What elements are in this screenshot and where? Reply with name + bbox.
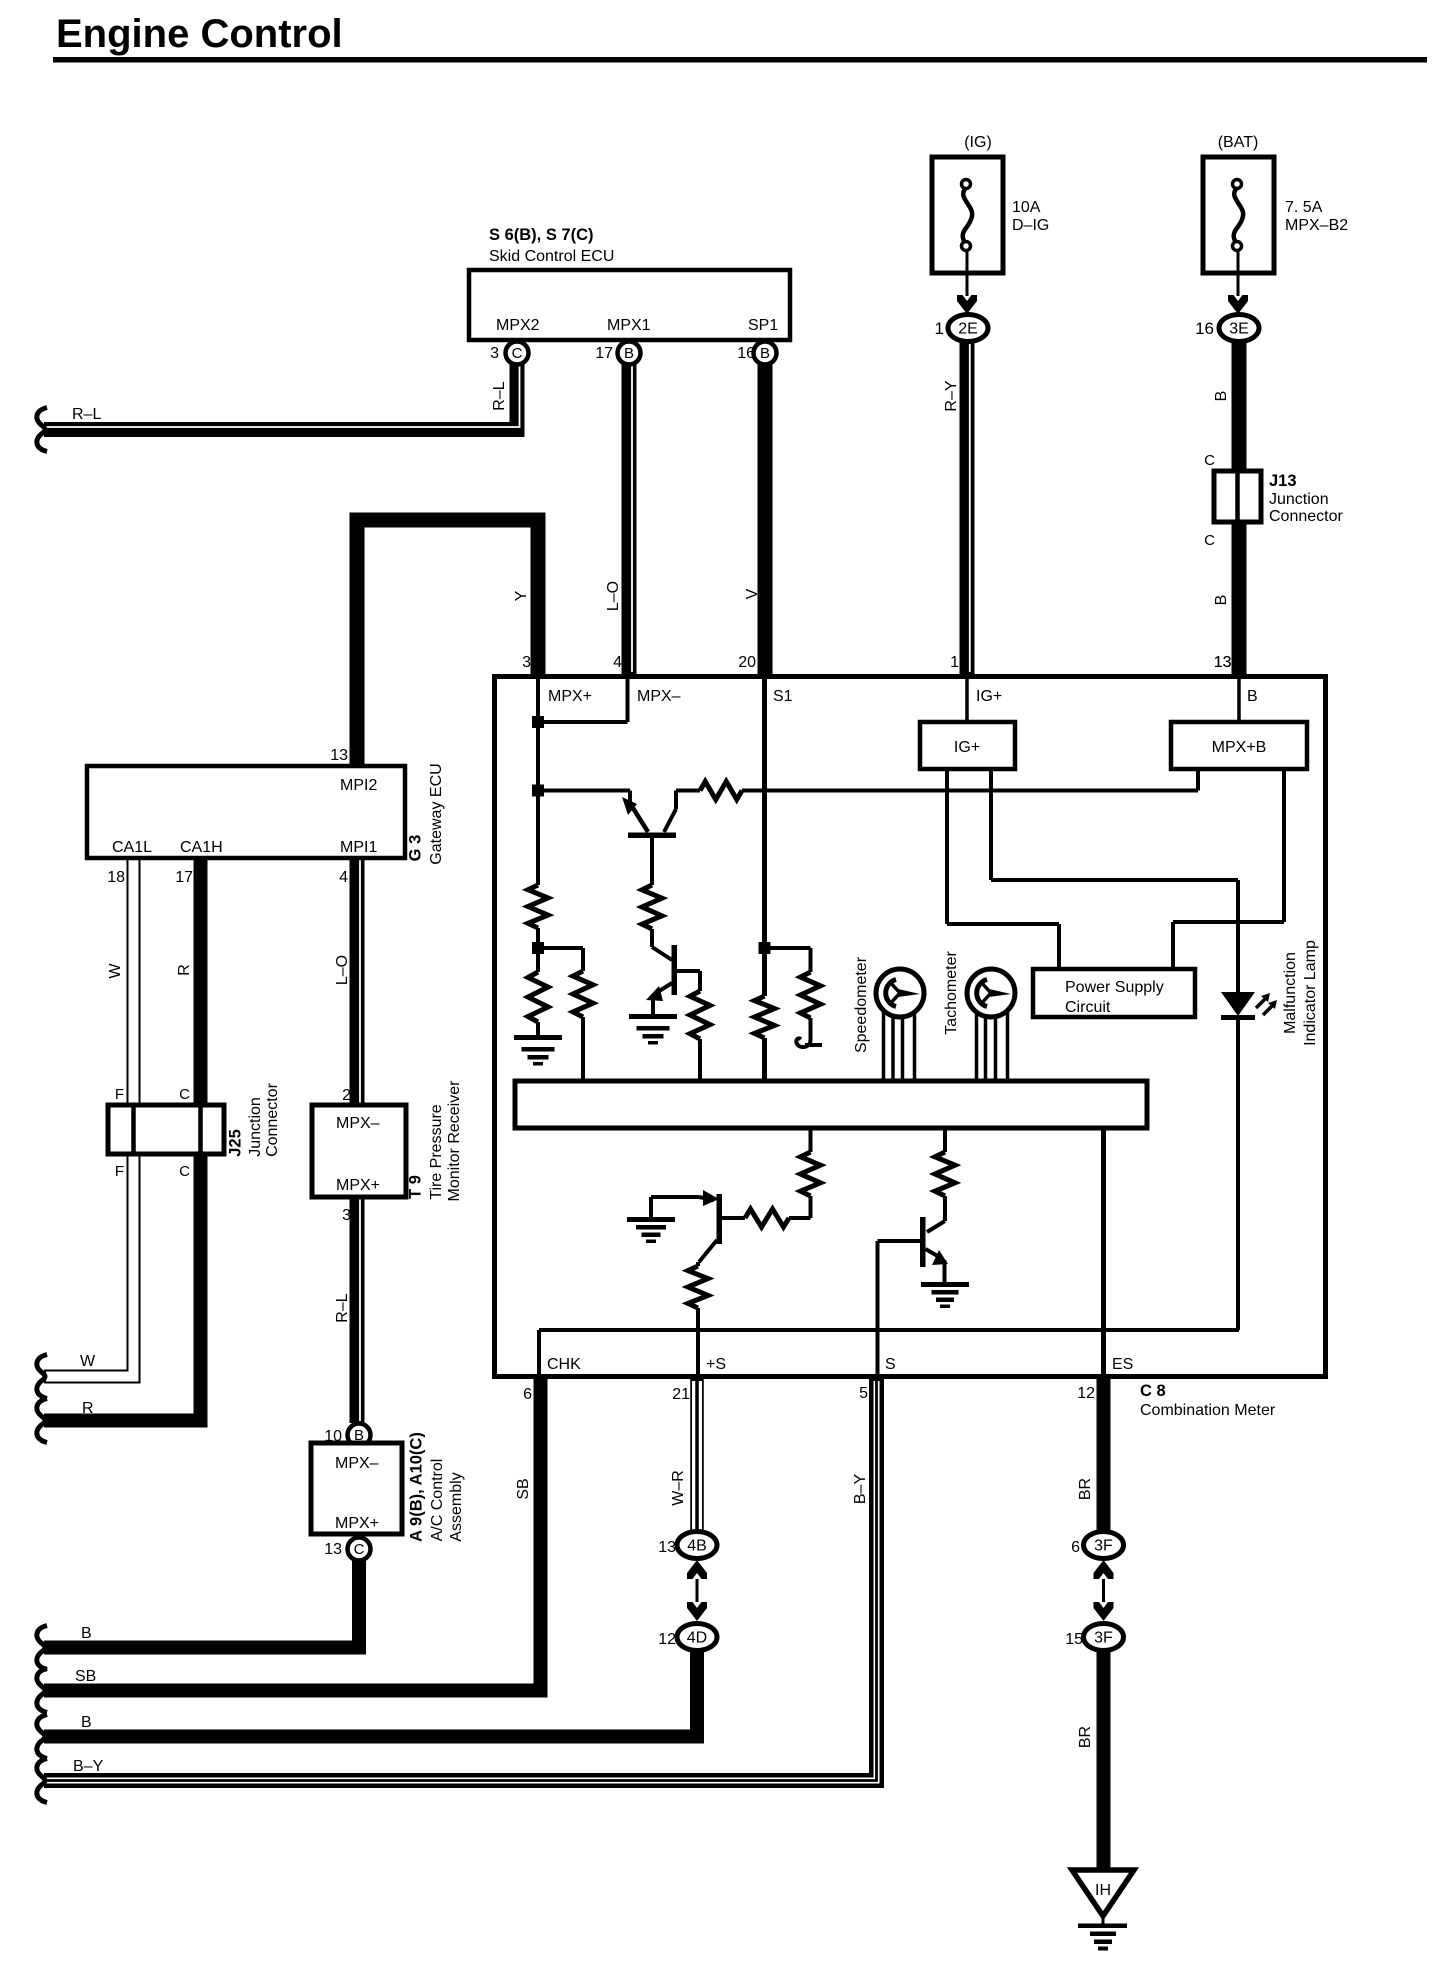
svg-text:MPX–: MPX–: [637, 688, 681, 705]
svg-text:7. 5A: 7. 5A: [1285, 199, 1323, 216]
svg-text:3E: 3E: [1229, 321, 1249, 338]
wire V from Skid Control ECU SP1 to Combination Meter pin 20: [758, 364, 773, 674]
svg-text:Gateway ECU: Gateway ECU: [428, 763, 445, 864]
branch from S1 to coil resistor: [765, 946, 811, 950]
svg-text:4: 4: [613, 654, 622, 671]
svg-text:13: 13: [330, 747, 348, 764]
MPX+ / MPX- cell lines: [626, 679, 630, 722]
svg-text:IG+: IG+: [976, 688, 1002, 705]
svg-text:A/C Control: A/C Control: [429, 1459, 446, 1542]
wire BR from connector 3F to ground IH: [1097, 1650, 1111, 1870]
junction connector J25: [108, 1105, 224, 1154]
junction connector J13: [1214, 471, 1261, 522]
Combination Meter C8 box: [495, 677, 1326, 1377]
svg-text:D–IG: D–IG: [1012, 217, 1049, 234]
arrow up to 3F: [1094, 1560, 1114, 1579]
transistor Q1: [628, 791, 632, 807]
wire R-L from Skid Control ECU MPX2 to left edge: [44, 364, 517, 430]
svg-text:Power Supply: Power Supply: [1065, 979, 1164, 996]
svg-text:2: 2: [342, 1087, 351, 1104]
svg-text:1: 1: [950, 654, 959, 671]
arrow down to lower 3F: [1094, 1602, 1114, 1621]
svg-text:B: B: [624, 345, 634, 362]
svg-text:C: C: [1204, 452, 1215, 469]
malfunction indicator lamp LED: [1236, 880, 1240, 994]
svg-text:MPX+: MPX+: [336, 1177, 380, 1194]
arrow into 3E: [1228, 295, 1248, 314]
svg-text:R–L: R–L: [72, 406, 101, 423]
svg-text:ES: ES: [1112, 1356, 1133, 1373]
wire B-Y from left edge to Combination Meter S: [44, 1379, 877, 1781]
svg-text:B: B: [1213, 595, 1230, 606]
svg-text:C: C: [179, 1163, 190, 1180]
svg-text:16: 16: [1195, 319, 1214, 338]
svg-text:4D: 4D: [687, 1630, 707, 1647]
resistor below Q1: [642, 885, 662, 929]
svg-text:J25: J25: [226, 1129, 244, 1157]
svg-text:C: C: [512, 345, 523, 362]
A/C Control Assembly box: [311, 1443, 402, 1534]
svg-text:1: 1: [935, 319, 944, 338]
svg-text:C: C: [354, 1541, 365, 1558]
svg-text:13: 13: [658, 1539, 676, 1556]
ground at Q3 emitter: [627, 1217, 675, 1222]
resistor to ground on MPX+ line: [528, 972, 548, 1022]
svg-text:17: 17: [595, 345, 613, 362]
svg-text:R–Y: R–Y: [943, 380, 960, 411]
svg-text:6: 6: [1071, 1539, 1080, 1556]
MPX+B box outputs: [1196, 769, 1200, 791]
svg-text:(IG): (IG): [964, 134, 992, 151]
svg-text:MPI1: MPI1: [340, 839, 377, 856]
svg-text:MPX–B2: MPX–B2: [1285, 217, 1348, 234]
branch resistor to bus: [538, 946, 583, 950]
svg-text:BR: BR: [1077, 1478, 1094, 1500]
internal line MPX+: [536, 679, 540, 885]
coil hook terminal: [796, 1038, 810, 1047]
wire R-L from Tire Pressure Monitor Receiver to A/C Control Assembly: [350, 1197, 365, 1423]
svg-text:Monitor Receiver: Monitor Receiver: [446, 1080, 463, 1202]
svg-text:IH: IH: [1095, 1882, 1111, 1899]
wire B from fuse 3E through J13 to Combination Meter pin 13: [1232, 342, 1247, 674]
svg-text:CHK: CHK: [547, 1356, 581, 1373]
svg-text:12: 12: [1077, 1385, 1095, 1402]
svg-text:Tachometer: Tachometer: [943, 951, 960, 1035]
svg-text:21: 21: [672, 1386, 690, 1403]
svg-text:SB: SB: [515, 1478, 532, 1499]
svg-text:B–Y: B–Y: [73, 1758, 104, 1775]
svg-text:L–O: L–O: [334, 955, 351, 985]
svg-text:3: 3: [522, 654, 531, 671]
line bus to Q4 network: [943, 1128, 947, 1152]
svg-text:(BAT): (BAT): [1218, 134, 1259, 151]
svg-text:B: B: [81, 1714, 92, 1731]
svg-text:B: B: [760, 345, 770, 362]
svg-text:2E: 2E: [958, 321, 978, 338]
svg-text:SP1: SP1: [748, 317, 778, 334]
svg-text:C: C: [179, 1086, 190, 1103]
svg-text:Junction: Junction: [1269, 491, 1329, 508]
svg-text:Speedometer: Speedometer: [853, 956, 870, 1053]
wire Y from Gateway ECU MPI2 to Combination Meter pin 3: [357, 520, 538, 766]
Power Supply Circuit box: [1033, 969, 1195, 1017]
svg-text:R–L: R–L: [491, 381, 508, 410]
wire BR from Combination Meter ES to connector 3F: [1097, 1379, 1111, 1532]
curly continuation mark R: [37, 1399, 47, 1443]
svg-text:CA1L: CA1L: [112, 839, 152, 856]
svg-text:Y: Y: [513, 590, 530, 601]
ground IH bars: [1078, 1924, 1127, 1929]
arrow up to 4B: [687, 1560, 707, 1579]
svg-text:F: F: [115, 1163, 124, 1180]
svg-text:20: 20: [738, 654, 756, 671]
svg-text:MPX+B: MPX+B: [1212, 739, 1267, 756]
svg-text:13: 13: [324, 1541, 342, 1558]
svg-text:S1: S1: [773, 688, 793, 705]
svg-text:CA1H: CA1H: [180, 839, 223, 856]
svg-text:A 9(B), A10(C): A 9(B), A10(C): [407, 1432, 425, 1542]
svg-text:L–O: L–O: [605, 581, 622, 611]
transistor Q4: [920, 1217, 926, 1267]
svg-text:+S: +S: [706, 1356, 726, 1373]
internal line y=790 right segment with resistor: [676, 789, 700, 793]
ES line bus to bottom: [1101, 1128, 1106, 1374]
svg-text:6: 6: [523, 1386, 532, 1403]
Tire Pressure Monitor Receiver T9 box: [312, 1105, 406, 1197]
svg-text:MPX2: MPX2: [496, 317, 540, 334]
svg-text:B: B: [1213, 391, 1230, 402]
svg-text:Combination Meter: Combination Meter: [1140, 1402, 1276, 1419]
wire fuse IG to 2E: [966, 250, 969, 296]
svg-text:Connector: Connector: [1269, 508, 1343, 525]
svg-text:3: 3: [342, 1207, 351, 1224]
transistor Q3: [717, 1194, 723, 1244]
wire fuse BAT to 3E: [1237, 250, 1240, 296]
svg-text:3F: 3F: [1094, 1630, 1113, 1647]
svg-text:Indicator Lamp: Indicator Lamp: [1302, 940, 1319, 1046]
svg-text:Tire Pressure: Tire Pressure: [428, 1104, 445, 1200]
svg-text:15: 15: [1065, 1631, 1083, 1648]
wire SB from left edge to Combination Meter CHK: [44, 1379, 541, 1691]
svg-text:MPX+: MPX+: [335, 1515, 379, 1532]
svg-text:MPX–: MPX–: [335, 1455, 379, 1472]
ground at Q4 emitter: [921, 1282, 969, 1287]
svg-text:SB: SB: [75, 1668, 96, 1685]
Gateway ECU G3 box: [87, 766, 405, 858]
svg-text:B: B: [1247, 688, 1258, 705]
MPX+B internal lead: [1237, 679, 1241, 722]
svg-text:W: W: [107, 963, 124, 979]
svg-text:C 8: C 8: [1140, 1382, 1166, 1400]
internal line S1: [762, 679, 767, 996]
curly continuation mark B-Y: [37, 1759, 47, 1803]
svg-text:R: R: [82, 1400, 94, 1417]
internal connector bus bar: [515, 1081, 1147, 1128]
svg-text:Circuit: Circuit: [1065, 999, 1111, 1016]
svg-text:Malfunction: Malfunction: [1282, 952, 1299, 1034]
line bus to Q3 network: [809, 1128, 813, 1152]
svg-text:MPX+: MPX+: [548, 688, 592, 705]
svg-text:BR: BR: [1077, 1726, 1094, 1748]
wire W from Gateway ECU CA1L through J25 to left edge: [44, 858, 134, 1377]
resistor under Q2 base feed: [690, 991, 710, 1039]
svg-text:T 9: T 9: [406, 1175, 424, 1199]
arrow into 2E: [957, 295, 977, 314]
svg-text:Assembly: Assembly: [448, 1472, 465, 1541]
svg-text:W–R: W–R: [670, 1470, 687, 1506]
svg-text:MPI2: MPI2: [340, 777, 377, 794]
svg-text:12: 12: [658, 1631, 676, 1648]
svg-text:F: F: [115, 1086, 124, 1103]
bottom pin cells line: [539, 1328, 1239, 1332]
svg-text:10A: 10A: [1012, 199, 1041, 216]
ground under Q2: [629, 1014, 677, 1019]
wire B from A/C Control Assembly to left edge: [44, 1561, 359, 1648]
resistor on MPX+ line: [528, 885, 548, 928]
svg-text:Engine Control: Engine Control: [56, 12, 343, 56]
svg-text:4: 4: [339, 869, 348, 886]
svg-text:Connector: Connector: [264, 1082, 281, 1156]
IG+ internal lead: [965, 679, 969, 722]
svg-text:G 3: G 3: [406, 835, 424, 862]
wire B from left edge to connector 4D: [44, 1650, 697, 1737]
IG+ internal box: [920, 722, 1015, 769]
svg-text:J13: J13: [1269, 472, 1297, 490]
curly continuation mark B1: [37, 1626, 47, 1670]
wire W-R from Combination Meter +S to connector 4B: [690, 1379, 704, 1532]
svg-text:3: 3: [490, 345, 499, 362]
wire R-Y from fuse 2E to Combination Meter pin 1: [960, 342, 975, 674]
svg-text:B–Y: B–Y: [852, 1474, 869, 1505]
resistor on +S line: [688, 1266, 708, 1308]
LED emission arrows: [1256, 998, 1266, 1008]
svg-text:R–L: R–L: [334, 1293, 351, 1322]
IG+ box outputs: [945, 769, 949, 924]
resistor on S1 line to bus: [755, 996, 775, 1038]
curly continuation mark SB: [37, 1669, 47, 1713]
svg-text:13: 13: [1214, 654, 1232, 671]
svg-text:Junction: Junction: [247, 1097, 264, 1157]
transistor Q2: [672, 945, 678, 995]
svg-text:S 6(B), S 7(C): S 6(B), S 7(C): [489, 226, 594, 244]
svg-text:B: B: [81, 1625, 92, 1642]
ground IH triangle: [1072, 1870, 1134, 1916]
svg-text:17: 17: [175, 869, 193, 886]
svg-text:3F: 3F: [1094, 1538, 1113, 1555]
svg-text:MPX–: MPX–: [336, 1115, 380, 1132]
svg-text:IG+: IG+: [954, 739, 980, 756]
svg-text:Skid Control ECU: Skid Control ECU: [489, 248, 614, 265]
wire L-O from Skid Control ECU MPX1 to Combination Meter pin 4: [622, 364, 637, 674]
svg-text:C: C: [1204, 532, 1215, 549]
svg-text:W: W: [80, 1353, 96, 1370]
svg-text:4B: 4B: [687, 1538, 707, 1555]
svg-text:5: 5: [859, 1385, 868, 1402]
svg-text:S: S: [885, 1356, 896, 1373]
svg-text:R: R: [176, 964, 193, 976]
Skid Control ECU box: [469, 270, 790, 340]
wire R from Gateway ECU CA1H through J25 to left edge: [44, 858, 201, 1421]
ground under MPX+ resistor: [514, 1035, 562, 1040]
internal bus line y=790 left segment: [538, 789, 630, 793]
curly continuation mark W: [37, 1355, 47, 1399]
svg-text:MPX1: MPX1: [607, 317, 651, 334]
curly continuation mark B2: [37, 1715, 47, 1759]
MPX+B internal box: [1171, 722, 1307, 769]
svg-text:18: 18: [107, 869, 125, 886]
arrow down to 4D: [687, 1602, 707, 1621]
curly continuation mark R-L: [37, 408, 47, 452]
wire L-O from Gateway ECU MPI1 to Tire Pressure Monitor Receiver: [350, 858, 365, 1105]
svg-text:V: V: [744, 588, 761, 599]
